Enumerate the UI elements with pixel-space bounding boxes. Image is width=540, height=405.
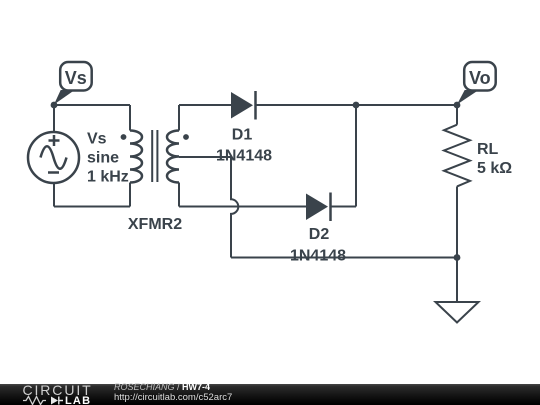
node Vs junction dot <box>51 102 58 109</box>
wire source bottom pin <box>53 183 55 207</box>
diode D1 <box>231 91 256 120</box>
node output junction dot mid <box>353 102 360 109</box>
wire bottom-left horizontal <box>54 206 130 208</box>
transformer XFMR2 primary winding <box>130 131 142 183</box>
node Vo junction dot <box>454 102 461 109</box>
node ground junction dot <box>454 254 461 261</box>
svg-text:Vo: Vo <box>469 68 491 88</box>
ground symbol <box>436 302 479 323</box>
wire source top pin <box>53 105 55 132</box>
svg-text:5 kΩ: 5 kΩ <box>477 160 512 177</box>
wire primary top pin <box>129 105 131 131</box>
svg-text:Vs: Vs <box>87 131 107 148</box>
wire RL bottom pin <box>456 186 458 257</box>
wire D1 cathode to output node <box>256 104 458 106</box>
label Vs sine 1 kHz <box>87 131 129 186</box>
svg-text:LAB: LAB <box>65 395 91 405</box>
voltage source Vs <box>28 132 79 183</box>
wire top-left horizontal Vs node to primary top <box>54 104 130 106</box>
diode D2 <box>306 193 331 222</box>
wire RL top pin <box>456 105 458 125</box>
wire D2 cathode to corner <box>331 206 357 208</box>
svg-text:1 kHz: 1 kHz <box>87 169 129 186</box>
svg-text:1N4148: 1N4148 <box>290 248 346 265</box>
wire output node down to D2 cathode <box>355 105 357 207</box>
wire center tap vertical with hop over D2 wire <box>231 157 238 258</box>
flag Vo <box>457 62 496 105</box>
wire secondary bottom pin <box>178 183 180 207</box>
CircuitLab logo <box>0 382 110 405</box>
wire secondary top pin <box>178 105 180 131</box>
svg-text:D1: D1 <box>232 127 253 144</box>
wire secondary top to D1 anode <box>179 104 231 106</box>
transformer secondary phase dot <box>183 134 189 140</box>
wire primary bottom pin <box>129 183 131 207</box>
svg-text:sine: sine <box>87 150 119 167</box>
transformer primary phase dot <box>121 134 127 140</box>
svg-text:D2: D2 <box>309 226 330 243</box>
svg-text:Vs: Vs <box>65 68 87 88</box>
wire bottom ground rail <box>231 257 457 259</box>
footer bar <box>0 384 540 405</box>
wire ground pin <box>456 258 458 303</box>
footer text <box>114 383 232 402</box>
wire secondary bottom to D2 anode <box>179 206 306 208</box>
flag Vs <box>54 62 92 105</box>
svg-text:RL: RL <box>477 141 499 158</box>
resistor RL <box>444 125 470 187</box>
wire center tap horizontal <box>179 156 231 158</box>
svg-text:XFMR2: XFMR2 <box>128 216 182 233</box>
transformer secondary winding <box>167 131 179 183</box>
transformer core <box>152 130 157 182</box>
